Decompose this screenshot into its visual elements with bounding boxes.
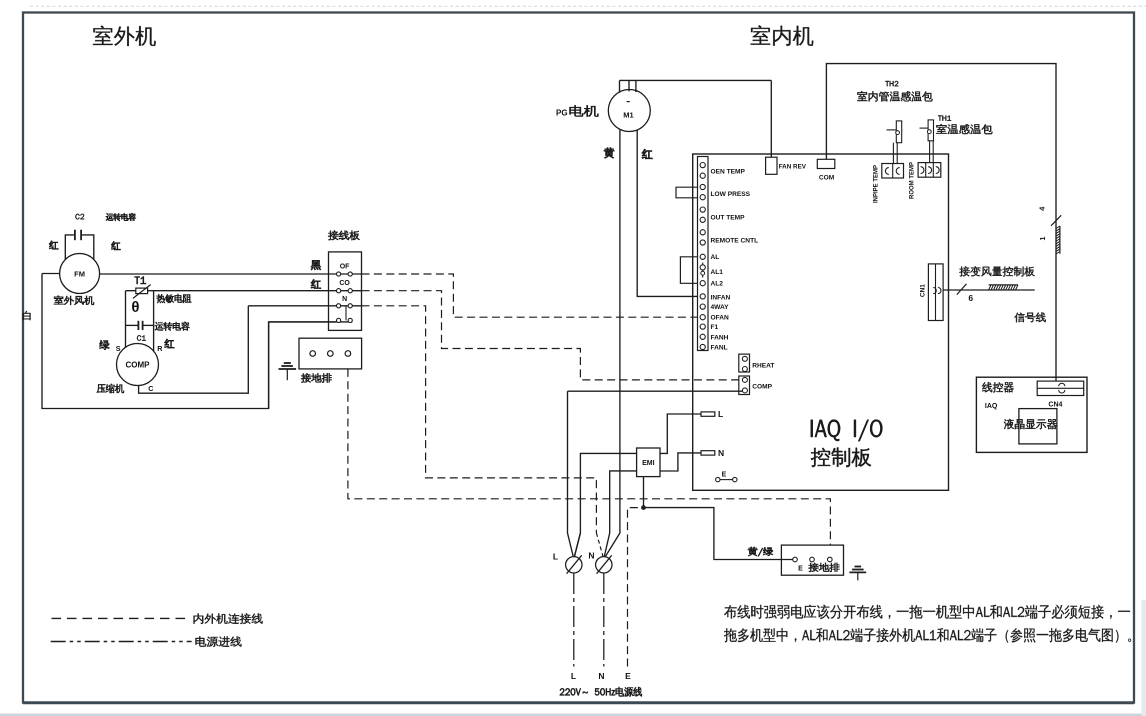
svg-text:N: N: [588, 551, 594, 561]
svg-text:1: 1: [1040, 236, 1047, 240]
svg-text:N: N: [598, 671, 604, 681]
svg-text:REMOTE CNTL: REMOTE CNTL: [711, 237, 759, 244]
svg-text:AL: AL: [711, 254, 720, 261]
svg-text:L: L: [553, 552, 558, 562]
svg-text:COM: COM: [819, 174, 835, 181]
svg-text:INFAN: INFAN: [711, 295, 731, 302]
svg-text:PG: PG: [556, 109, 568, 118]
svg-text:θ: θ: [131, 299, 139, 316]
svg-text:F1: F1: [711, 324, 719, 331]
svg-text:OFAN: OFAN: [711, 315, 730, 322]
svg-text:6: 6: [968, 293, 973, 303]
svg-text:OF: OF: [340, 263, 350, 270]
svg-text:IAQ: IAQ: [985, 403, 998, 410]
svg-text:FANL: FANL: [711, 345, 728, 352]
svg-text:CN4: CN4: [1048, 401, 1062, 408]
svg-text:R: R: [157, 344, 163, 353]
svg-text:OUT TEMP: OUT TEMP: [711, 215, 746, 222]
svg-text:ROOM TEMP: ROOM TEMP: [910, 162, 916, 199]
svg-text:L: L: [571, 671, 576, 681]
svg-text:EMI: EMI: [642, 460, 655, 467]
svg-text:C: C: [148, 384, 153, 393]
svg-text:FAN REV: FAN REV: [779, 163, 807, 170]
svg-text:COMP: COMP: [752, 384, 772, 391]
svg-text:CN1: CN1: [920, 284, 927, 297]
svg-text:E: E: [625, 671, 631, 681]
svg-text:4WAY: 4WAY: [711, 304, 730, 311]
svg-text:CO: CO: [339, 280, 350, 287]
svg-text:AL1: AL1: [711, 269, 724, 276]
svg-text:E: E: [798, 566, 803, 573]
svg-text:M1: M1: [623, 110, 633, 119]
svg-text:N: N: [342, 296, 347, 303]
svg-text:INPIPE TEMP: INPIPE TEMP: [874, 165, 880, 203]
svg-text:L: L: [718, 409, 723, 419]
svg-text:N: N: [718, 448, 724, 458]
svg-text:OEN TEMP: OEN TEMP: [711, 168, 746, 175]
svg-text:E: E: [722, 472, 727, 479]
svg-text:FM: FM: [74, 270, 85, 279]
svg-text:AL2: AL2: [711, 281, 724, 288]
svg-text:LOW PRESS: LOW PRESS: [711, 191, 751, 198]
svg-text:FANH: FANH: [711, 334, 729, 341]
svg-text:COMP: COMP: [126, 361, 151, 370]
svg-text:RHEAT: RHEAT: [752, 362, 774, 369]
